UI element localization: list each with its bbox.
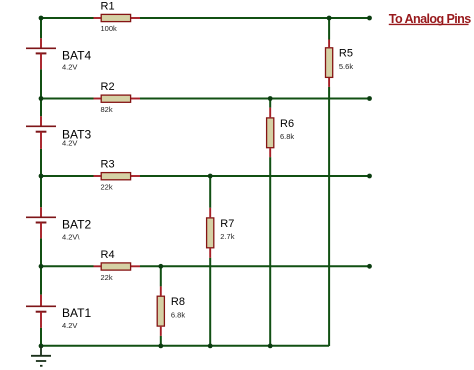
junction node bus-R7 (208, 344, 213, 349)
terminal node row3 analog pin (367, 174, 372, 179)
wire left rail seg5 (40, 328, 42, 346)
resistor R5 (326, 40, 354, 87)
terminal node row2 analog pin (367, 96, 372, 101)
resistor R8 (157, 286, 185, 336)
resistor R7 (207, 208, 235, 258)
svg-text:R4: R4 (101, 249, 115, 261)
wire left rail seg2 (40, 69, 42, 116)
svg-text:4.2V: 4.2V (62, 139, 77, 148)
resistor R1 (94, 1, 141, 33)
junction node bus-R6 (268, 344, 273, 349)
wire row2 right segment (140, 98, 370, 100)
junction node row1-rail (39, 16, 44, 21)
junction node row4-R8 (158, 264, 163, 269)
svg-text:22k: 22k (101, 273, 113, 282)
resistor R3 (94, 159, 141, 192)
svg-text:4.2V: 4.2V (62, 321, 77, 330)
svg-text:BAT1: BAT1 (62, 306, 91, 320)
svg-text:BAT4: BAT4 (62, 49, 91, 63)
svg-text:2.7k: 2.7k (220, 232, 234, 241)
resistor R6 (267, 108, 295, 158)
junction node bus-R8 (158, 344, 163, 349)
junction node row4-rail (39, 264, 44, 269)
junction node row2-R6 (268, 96, 273, 101)
svg-text:R7: R7 (220, 218, 234, 230)
terminal node row1 analog pin (367, 16, 372, 21)
resistor R2 (94, 81, 141, 114)
wire ground bus (41, 345, 329, 347)
battery BAT1 (26, 295, 91, 330)
wire R7 column bottom (209, 258, 211, 346)
svg-text:6.8k: 6.8k (280, 132, 294, 141)
battery BAT2 (26, 207, 91, 241)
svg-text:R6: R6 (280, 118, 294, 130)
ground (31, 346, 51, 366)
svg-text:R1: R1 (101, 1, 115, 13)
wire R8 column top (160, 266, 162, 286)
svg-text:BAT2: BAT2 (62, 218, 91, 232)
svg-text:4.2V: 4.2V (62, 63, 77, 72)
svg-text:82k: 82k (101, 105, 113, 114)
wire row3 left segment (41, 175, 94, 177)
battery BAT4 (26, 38, 91, 71)
wire left rail seg4 (40, 238, 42, 294)
wire left rail seg1 (40, 18, 42, 38)
wire R5 column bottom (328, 87, 330, 346)
wire row1 left segment (41, 17, 94, 19)
wire R6 column top (269, 99, 271, 108)
wire R7 column top (209, 176, 211, 208)
wire row2 left segment (41, 98, 94, 100)
wire row1 right segment (140, 17, 370, 19)
wire R6 column bottom (269, 157, 271, 346)
wire R5 column top (328, 18, 330, 40)
svg-text:R3: R3 (101, 159, 115, 171)
resistor R4 (94, 249, 141, 282)
svg-text:22k: 22k (101, 183, 113, 192)
svg-text:R8: R8 (171, 296, 185, 308)
svg-text:5.6k: 5.6k (339, 62, 353, 71)
svg-text:4.2V\: 4.2V\ (62, 233, 80, 242)
wire row4 left segment (41, 265, 94, 267)
junction node row2-rail (39, 96, 44, 101)
junction node row3-R7 (208, 174, 213, 179)
wire R8 column bottom (160, 336, 162, 346)
battery BAT3 (26, 116, 91, 149)
wire left rail seg3 (40, 149, 42, 207)
junction node bus-rail (39, 344, 44, 349)
junction node row3-rail (39, 174, 44, 179)
node To Analog Pins label (389, 12, 471, 26)
svg-text:R2: R2 (101, 81, 115, 93)
wire row4 right segment (140, 265, 370, 267)
terminal node row4 analog pin (367, 264, 372, 269)
svg-text:100k: 100k (101, 24, 118, 33)
svg-text:6.8k: 6.8k (171, 310, 185, 319)
svg-text:R5: R5 (339, 48, 353, 60)
junction node row1-R5 (327, 16, 332, 21)
wire row3 right segment (140, 175, 370, 177)
